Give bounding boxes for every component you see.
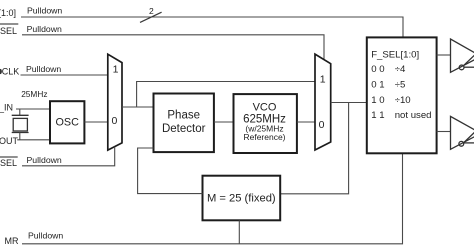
- svg-text:F_SEL[1:0]: F_SEL[1:0]: [371, 50, 419, 61]
- wire phase detector to VCO: [214, 121, 234, 123]
- svg-text:25MHz: 25MHz: [21, 89, 47, 99]
- svg-text:1 0: 1 0: [371, 95, 384, 106]
- svg-text:0 0: 0 0: [371, 64, 384, 75]
- svg-text:VCO: VCO: [253, 101, 277, 113]
- node XTAL_SEL label: [0, 24, 62, 36]
- wire XTAL_OUT: [17, 133, 50, 140]
- svg-text:1: 1: [113, 63, 119, 75]
- svg-text:_IN: _IN: [0, 103, 13, 113]
- wire PLL_SEL to mux U1 select: [22, 147, 115, 166]
- svg-text:0: 0: [111, 115, 117, 127]
- wire divider M to phase detector feedback input: [138, 148, 203, 194]
- svg-text:Pulldown: Pulldown: [27, 6, 62, 16]
- svg-text:CLK: CLK: [2, 67, 20, 77]
- bus width slash marker 2: [140, 6, 162, 22]
- svg-text:2: 2: [149, 6, 154, 16]
- wire divider block to output buffer 2: [437, 131, 451, 133]
- node FSEL[1:0] label: [0, 6, 62, 18]
- wire TEST_CLK to mux U1 input 1: [21, 74, 108, 76]
- wire FSEL bus: [21, 17, 403, 37]
- mux U2 PLL bypass select: [315, 54, 331, 150]
- svg-text:Reference): Reference): [243, 132, 285, 142]
- node TEST_CLK label: [0, 64, 61, 77]
- svg-text:÷10: ÷10: [395, 95, 411, 106]
- svg-text:0: 0: [319, 119, 325, 131]
- svg-text:Pulldown: Pulldown: [27, 155, 62, 165]
- svg-text:Pulldown: Pulldown: [28, 231, 63, 241]
- svg-text:MR: MR: [5, 236, 19, 246]
- svg-text:÷5: ÷5: [395, 80, 406, 91]
- mux U1 reference select: [108, 54, 122, 150]
- wire MR to output divider block: [22, 153, 403, 244]
- VCO U4: [234, 94, 297, 153]
- wire mux U2 output to divider block: [331, 102, 367, 104]
- svg-text:Pulldown: Pulldown: [27, 24, 62, 34]
- svg-text:OSC: OSC: [55, 116, 79, 128]
- wire XTAL_IN: [16, 109, 50, 115]
- wire PLL bypass branch to mux U2 input 1: [137, 82, 315, 108]
- svg-text:Detector: Detector: [162, 123, 206, 135]
- svg-text:÷4: ÷4: [395, 64, 406, 75]
- wire divider block to output buffer 1: [437, 54, 451, 56]
- wire VCO to mux U2 input 0: [297, 121, 315, 123]
- phase detector U3: [154, 94, 214, 153]
- svg-text:Pulldown: Pulldown: [26, 64, 61, 74]
- node PLL_SEL label: [0, 155, 62, 168]
- wire XTAL_SEL to mux U2 select: [22, 35, 324, 60]
- svg-text:M = 25 (fixed): M = 25 (fixed): [207, 193, 276, 205]
- svg-text:SEL: SEL: [0, 158, 17, 168]
- svg-text:SEL: SEL: [0, 26, 17, 36]
- node MR label: [5, 231, 64, 247]
- svg-text:[1:0]: [1:0]: [0, 8, 16, 18]
- wire OSC to mux U1 input 0: [84, 121, 107, 123]
- svg-text:1: 1: [320, 74, 326, 86]
- output buffer 2: [451, 116, 474, 149]
- wire mux U1 output to phase detector: [122, 106, 154, 108]
- divider M=25: [203, 176, 281, 221]
- svg-text:0 1: 0 1: [371, 80, 384, 91]
- svg-text:not used: not used: [395, 110, 432, 121]
- svg-text:1 1: 1 1: [371, 110, 384, 121]
- output buffer 1: [451, 39, 474, 72]
- wire feedback to divider M: [280, 103, 348, 194]
- crystal X1: [12, 115, 29, 132]
- wire divider M to MR net: [238, 220, 240, 244]
- svg-text:OUT: OUT: [0, 136, 19, 146]
- svg-text:Phase: Phase: [167, 110, 200, 122]
- oscillator OSC: [50, 101, 84, 143]
- output divider block F_SEL: [367, 37, 437, 153]
